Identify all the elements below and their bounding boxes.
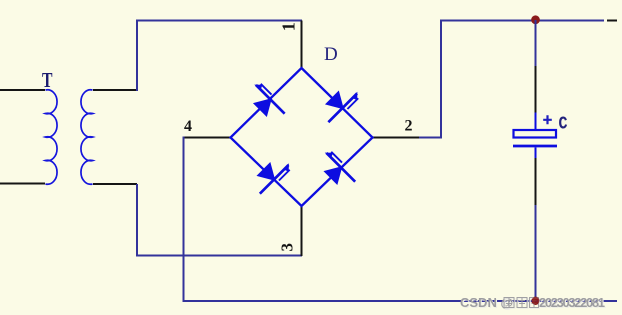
capacitor C bottom plate (513, 145, 557, 148)
svg-text:4: 4 (184, 118, 192, 135)
transformer T secondary bottom lead (93, 183, 137, 185)
capacitor C top lead (535, 113, 537, 130)
junction node top (531, 15, 540, 24)
junction node bottom (531, 297, 539, 305)
junction node bottom (overlay) (532, 297, 540, 305)
svg-text:3: 3 (278, 243, 297, 252)
bridge D pin 4 (184, 137, 232, 139)
wire capacitor bottom to junction (535, 205, 537, 301)
wire node4 to bottom rail (184, 137, 618, 302)
bridge D diamond (231, 68, 373, 206)
svg-text:D: D (324, 44, 338, 65)
transformer T primary bottom lead (0, 183, 45, 185)
wire secondary bottom to node3 (137, 184, 302, 256)
svg-text:20230322081: 20230322081 (539, 295, 605, 310)
svg-text:T: T (42, 68, 53, 92)
bridge D pin 1 (301, 21, 303, 69)
capacitor C bottom pin (535, 158, 537, 205)
diode D2 (node1 to node2, top-right) (318, 82, 362, 126)
svg-text:2: 2 (405, 117, 413, 134)
svg-text:C: C (559, 115, 568, 135)
wire secondary top to bridge pin1 (137, 21, 302, 92)
bridge D pin 2 (372, 137, 419, 139)
transformer T secondary winding (81, 90, 93, 185)
transformer T secondary top lead (93, 89, 137, 91)
transformer T primary winding (46, 90, 58, 185)
bridge D pin 3 (301, 206, 303, 257)
wire node2 to top rail (419, 21, 604, 138)
wire top rail right stub (607, 20, 617, 22)
capacitor C bottom lead (535, 148, 537, 159)
watermark CSDN (460, 295, 606, 311)
capacitor C plus sign (543, 115, 552, 124)
diode D1 (node4 to node1, top-left) (244, 81, 288, 125)
wire junction to capacitor top (535, 20, 537, 66)
capacitor C top pin (535, 66, 537, 113)
diode D4 (node3 to node2, bottom-right) (315, 149, 359, 193)
diode D3 (node4 to node3, bottom-left) (249, 153, 293, 197)
transformer T primary top lead (0, 89, 45, 91)
capacitor C top plate (514, 130, 557, 138)
svg-text:1: 1 (279, 22, 299, 31)
